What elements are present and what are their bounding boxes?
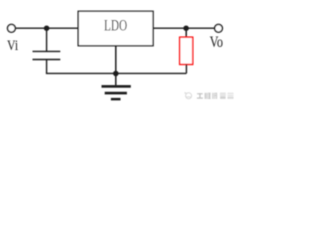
svg-text:Vi: Vi	[7, 38, 18, 54]
wire junction to ground symbol	[115, 73, 117, 85]
wire LDO output to terminal	[153, 27, 214, 29]
wire junction down to resistor	[185, 28, 187, 37]
wire LDO ground pin to bus	[115, 46, 117, 74]
watermark logo	[184, 92, 191, 99]
svg-text:LDO: LDO	[104, 18, 127, 35]
node input junction	[44, 25, 50, 31]
capacitor C1 top plate	[33, 50, 61, 52]
watermark text 工程师看海 (glyph blobs)	[197, 93, 234, 99]
node ground junction	[113, 71, 119, 77]
capacitor C1 bottom plate	[33, 59, 61, 61]
resistor R1 (red)	[180, 37, 193, 64]
ground bus wire	[46, 72, 187, 74]
wire input terminal to LDO input	[16, 27, 78, 29]
output terminal Vo (open circle)	[215, 24, 223, 32]
node output junction	[183, 25, 189, 31]
wire resistor to ground bus	[185, 64, 187, 73]
ground bar 3	[111, 98, 121, 101]
LDO U1 box	[78, 11, 153, 45]
wire junction down to capacitor	[46, 28, 48, 51]
svg-text:Vo: Vo	[210, 34, 224, 51]
ground bar 1	[102, 85, 131, 88]
input terminal Vi (open circle)	[7, 24, 15, 32]
wire capacitor to ground bus	[46, 60, 48, 74]
ground bar 2	[105, 92, 127, 95]
